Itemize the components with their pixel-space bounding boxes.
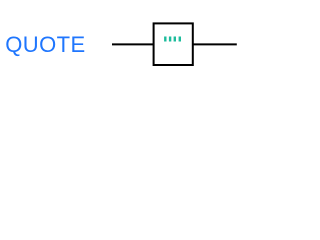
tick bar 3 [174,37,176,42]
tick bar 2 [169,37,171,42]
tick bar 1 [164,37,166,42]
node label QUOTE [5,34,85,56]
tick bar 4 [179,37,181,42]
wire left terminal [112,43,154,45]
wire right terminal [193,43,237,45]
component U1 box [154,23,193,65]
